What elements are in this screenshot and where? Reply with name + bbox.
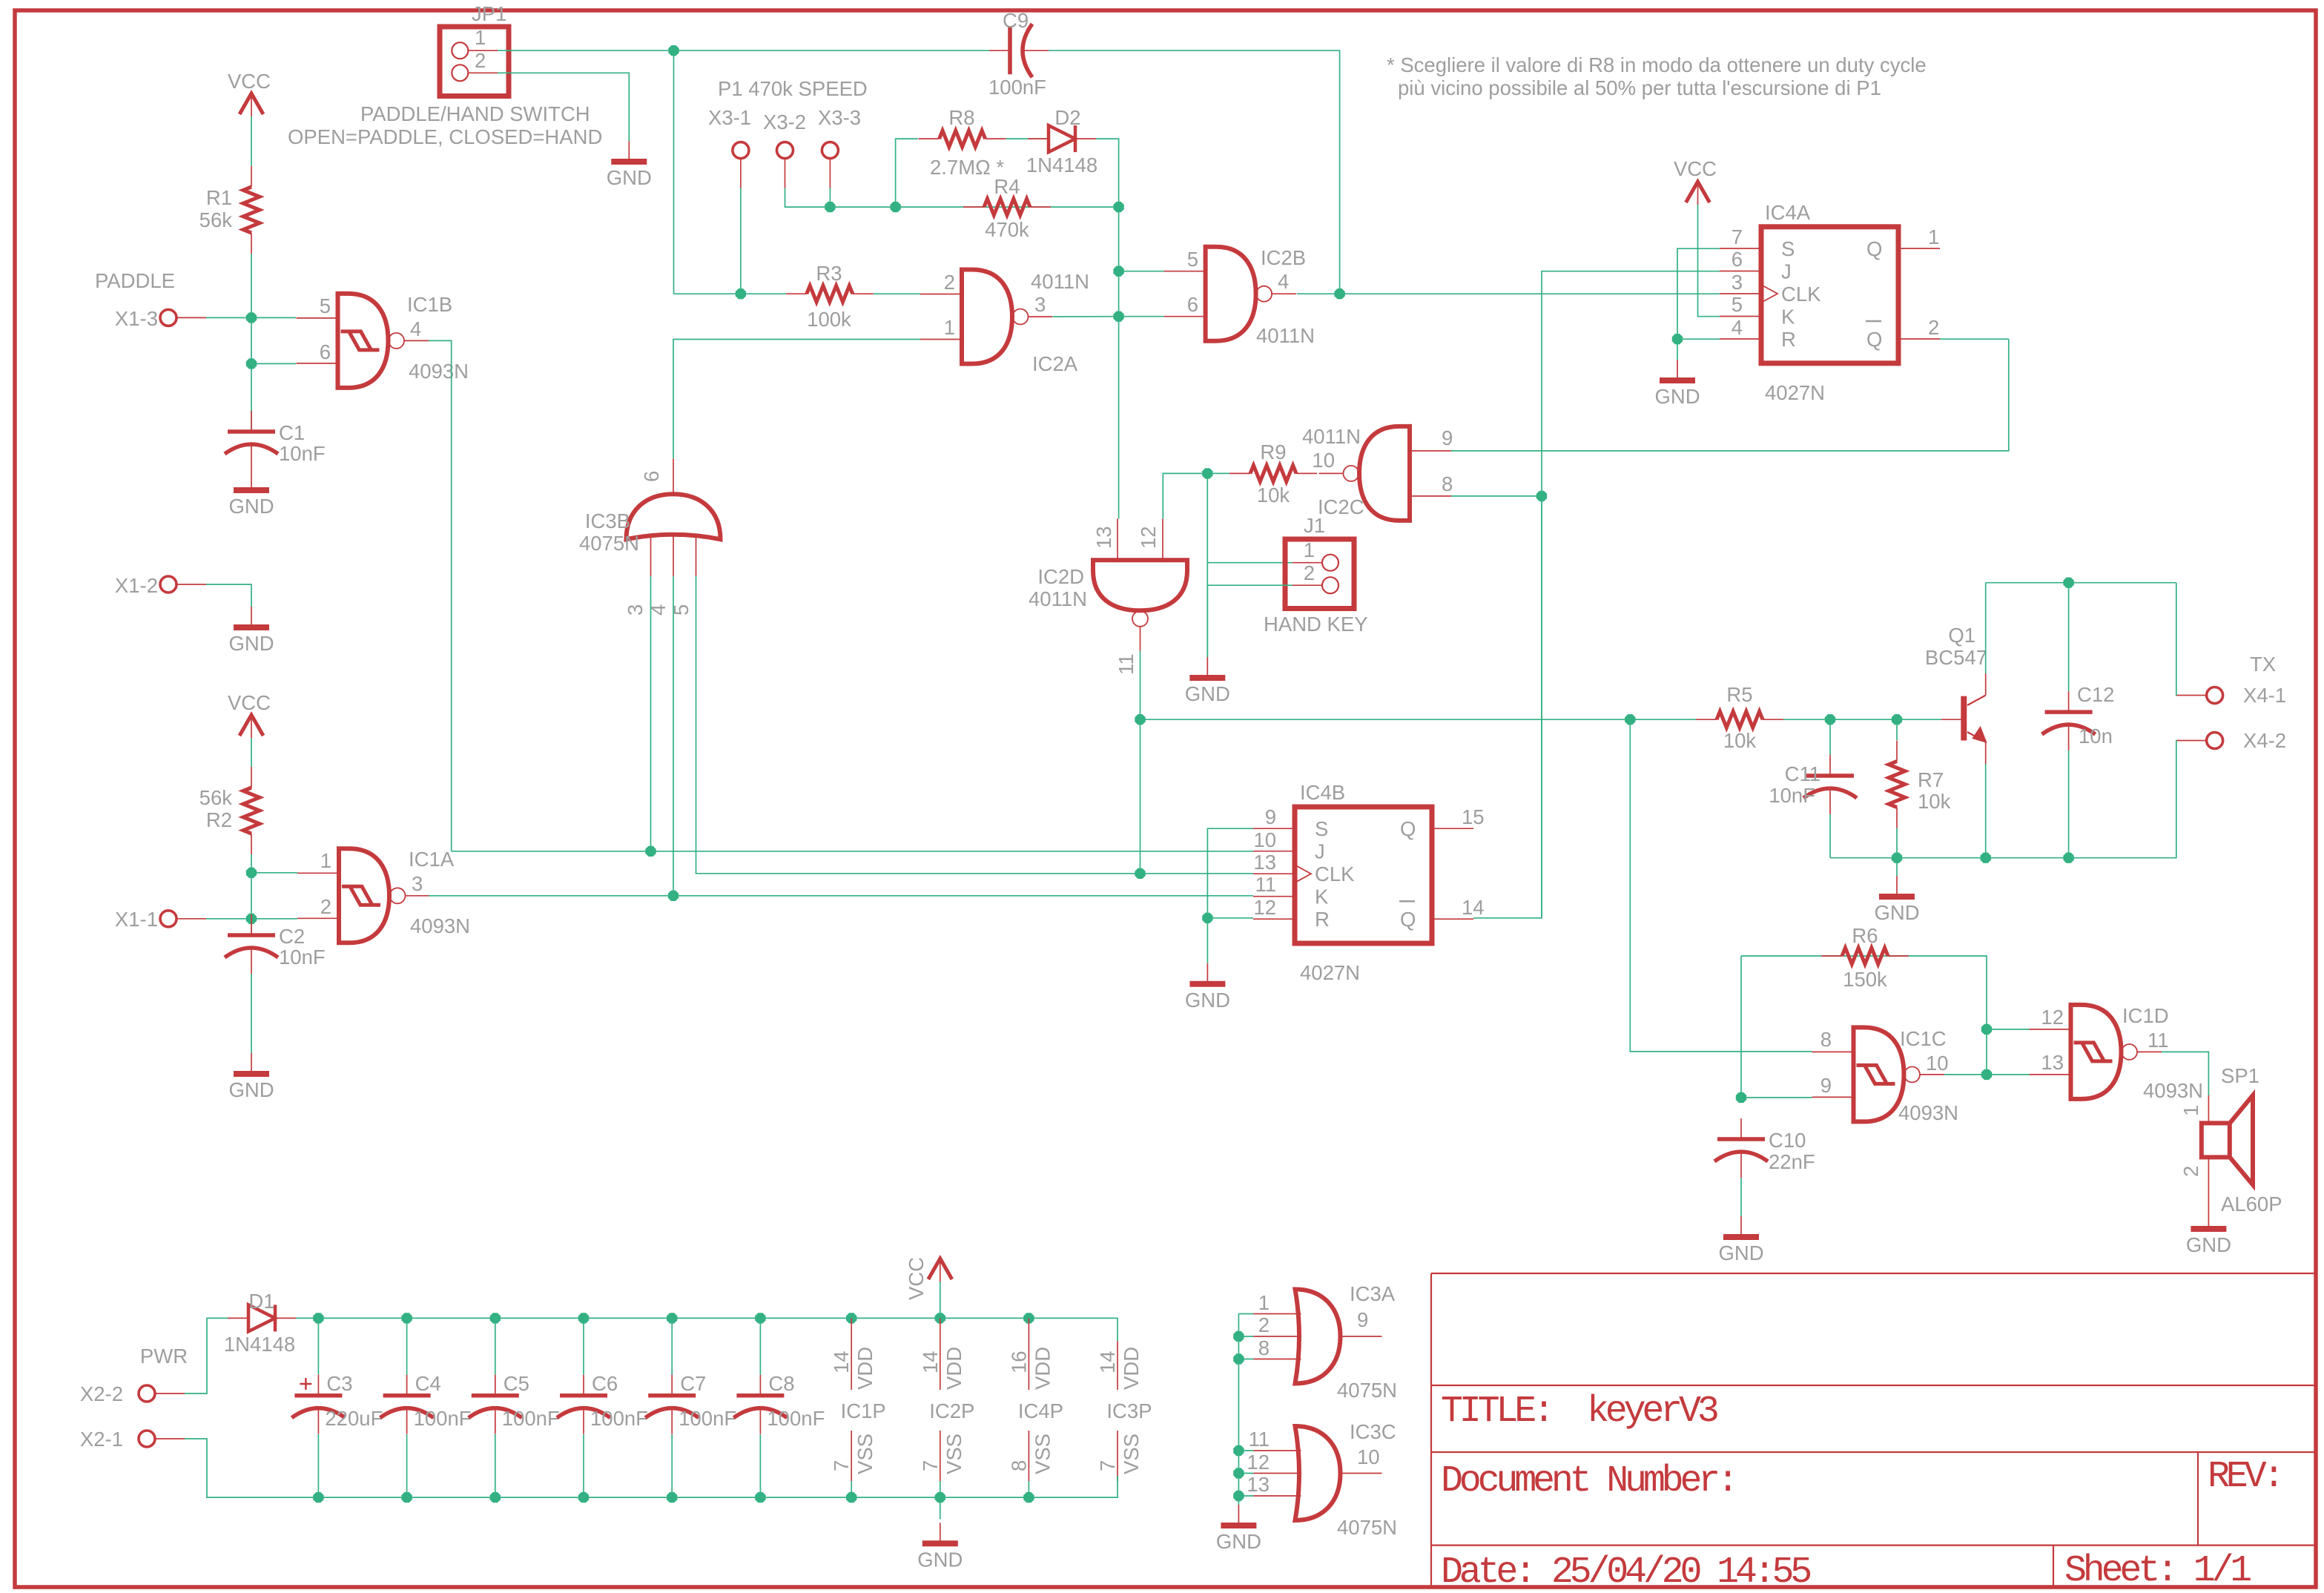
- wire C7 bottom: [671, 1434, 673, 1497]
- svg-text:4: 4: [1278, 270, 1289, 293]
- svg-text:5: 5: [320, 294, 331, 317]
- pin number 12 (IC3C): [1247, 1451, 1270, 1474]
- svg-text:6: 6: [1732, 248, 1743, 271]
- svg-text:4093N: 4093N: [1898, 1101, 1958, 1124]
- label Q1: [1948, 624, 1975, 647]
- ground below power rail: [917, 1523, 963, 1571]
- label 22nF (C10): [1769, 1150, 1815, 1173]
- gate IC1D 4093N: [2030, 1005, 2162, 1099]
- svg-text:VSS: VSS: [943, 1434, 965, 1474]
- label C9: [1003, 9, 1029, 32]
- svg-text:VSS: VSS: [854, 1434, 877, 1474]
- wire K row: [429, 895, 1253, 897]
- pin number 11 (IC3C): [1248, 1428, 1270, 1451]
- junction IC3 bus y1832: [1233, 1353, 1244, 1364]
- label 100nF (C8): [767, 1407, 825, 1430]
- svg-text:4011N: 4011N: [1256, 324, 1315, 347]
- svg-text:10: 10: [1312, 449, 1335, 472]
- label IC2A: [1032, 352, 1078, 375]
- label 100nF (C4): [414, 1407, 472, 1430]
- label 100nF (C5): [502, 1407, 560, 1430]
- label X2-2: [80, 1382, 123, 1405]
- svg-text:VSS: VSS: [1031, 1434, 1054, 1474]
- wire node to X1-1: [251, 873, 252, 919]
- svg-text:IC1B: IC1B: [407, 293, 452, 316]
- label 10nF (C2): [279, 946, 326, 969]
- label 10nF (C1): [279, 442, 326, 465]
- junction JP1 net: [668, 45, 679, 56]
- svg-text:4075N: 4075N: [1337, 1379, 1397, 1402]
- svg-text:R7: R7: [1918, 768, 1944, 791]
- svg-text:12: 12: [1137, 526, 1160, 549]
- svg-text:R: R: [1781, 328, 1796, 351]
- wire IC3 bus branch y1832: [1238, 1359, 1253, 1360]
- label OPEN=PADDLE CLOSED=HAND: [288, 125, 602, 148]
- junction X1-3 node: [246, 312, 257, 323]
- wire C6 top: [583, 1318, 584, 1374]
- svg-text:4075N: 4075N: [579, 532, 639, 555]
- pin number 13 (IC2D): [1092, 526, 1115, 549]
- ground below rail: [1874, 876, 1919, 924]
- label C12: [2077, 683, 2114, 706]
- capacitor C8: [733, 1375, 787, 1434]
- label 2.7MOhm (R8): [930, 156, 1004, 179]
- junction R5 row / IC1C-8 column: [1625, 714, 1635, 725]
- junction rail top C3: [313, 1313, 323, 1323]
- label R7: [1918, 768, 1944, 791]
- junction rail bottom C7: [667, 1492, 677, 1503]
- svg-text:GND: GND: [228, 495, 274, 518]
- ground below JP1: [607, 141, 652, 189]
- svg-text:PADDLE: PADDLE: [95, 269, 175, 292]
- svg-text:IC2B: IC2B: [1261, 246, 1306, 269]
- wire IC2C pin8 right: [1451, 495, 1542, 497]
- svg-text:4027N: 4027N: [1765, 381, 1825, 404]
- svg-text:4011N: 4011N: [1302, 425, 1361, 448]
- label X1-3: [115, 307, 158, 330]
- svg-text:100nF: 100nF: [590, 1407, 648, 1430]
- wire node to IC1B pin6: [251, 317, 296, 363]
- label HAND KEY: [1264, 613, 1368, 636]
- svg-text:10k: 10k: [1257, 484, 1290, 507]
- pin number 13 (IC3C): [1247, 1473, 1270, 1496]
- svg-text:C3: C3: [326, 1372, 352, 1395]
- label IC2B: [1261, 246, 1306, 269]
- svg-text:GND: GND: [1216, 1530, 1261, 1553]
- junction rail C12: [2063, 853, 2073, 863]
- wire C4 top: [406, 1318, 408, 1374]
- junction rail bottom C8: [755, 1492, 765, 1503]
- wire IC2C pin9 right: [1451, 339, 2009, 451]
- label IC1A: [409, 848, 455, 871]
- svg-text:VCC: VCC: [228, 691, 271, 714]
- capacitor C9: [989, 24, 1049, 77]
- pin number 11 (IC2D): [1115, 653, 1138, 675]
- svg-text:14: 14: [1096, 1350, 1119, 1373]
- svg-text:6: 6: [320, 340, 331, 363]
- svg-text:13: 13: [1092, 526, 1115, 549]
- svg-text:C8: C8: [768, 1372, 794, 1395]
- gate IC3B 4075N: [627, 458, 721, 576]
- svg-text:X1-1: X1-1: [115, 908, 158, 931]
- label X1-1: [115, 908, 158, 931]
- svg-text:16: 16: [1007, 1350, 1030, 1373]
- svg-text:più vicino possibile al 50% pe: più vicino possibile al 50% per tutta l'…: [1398, 76, 1881, 99]
- svg-text:P1 470k SPEED: P1 470k SPEED: [718, 77, 868, 100]
- power flag VCC (R1): [228, 70, 271, 116]
- svg-text:VCC: VCC: [228, 70, 271, 93]
- power pins IC3P: [1096, 1341, 1152, 1481]
- wire VCC to R1: [251, 116, 252, 166]
- svg-text:VDD: VDD: [943, 1347, 965, 1390]
- junction K row IC3B pin4: [668, 891, 679, 901]
- svg-text:10nF: 10nF: [1769, 784, 1815, 807]
- wire C1 top: [251, 363, 252, 432]
- pin number 2 (IC1A): [320, 895, 331, 918]
- junction IC4B R node: [1202, 913, 1212, 923]
- svg-text:10: 10: [1253, 828, 1276, 851]
- junction rail emitter: [1981, 853, 1991, 863]
- svg-text:7: 7: [1096, 1460, 1119, 1471]
- svg-text:2: 2: [944, 271, 955, 294]
- junction VSS rail IC4P: [1023, 1492, 1034, 1503]
- junction IC2D out to R5 row: [1135, 714, 1145, 725]
- junction VDD rail IC1P: [846, 1313, 856, 1323]
- wire bottom power rail: [293, 1476, 1118, 1497]
- junction VSS rail IC1P: [846, 1492, 856, 1503]
- label 4011N (IC2C): [1302, 425, 1361, 448]
- wire X2-1 to bottom rail: [185, 1439, 293, 1497]
- junction CLK row: [1135, 868, 1145, 879]
- svg-text:GND: GND: [1654, 385, 1700, 408]
- wire R7 to rail: [1896, 828, 1898, 858]
- resistor R9: [1229, 465, 1317, 481]
- svg-text:8: 8: [1258, 1336, 1270, 1359]
- svg-text:C5: C5: [504, 1372, 529, 1395]
- label 100nF (C7): [679, 1407, 736, 1430]
- svg-text:R9: R9: [1260, 441, 1286, 464]
- pin X1-2: [160, 576, 206, 593]
- svg-text:X3-1: X3-1: [708, 106, 751, 129]
- label X4-2: [2243, 729, 2286, 752]
- label C10: [1769, 1129, 1806, 1152]
- label SP1: [2221, 1064, 2259, 1087]
- wire X1-3 to junction: [206, 317, 296, 318]
- power flag VCC (rails): [905, 1257, 952, 1300]
- wire C7 top: [671, 1318, 673, 1374]
- label IC2C: [1318, 495, 1364, 518]
- pin number 5 (IC4A): [1732, 293, 1743, 316]
- pin number 8 (IC1C): [1820, 1028, 1832, 1051]
- pin X3-1: [733, 142, 749, 188]
- wire collector rail: [1986, 582, 2176, 584]
- label 4093N (IC1B): [409, 360, 469, 383]
- svg-text:X1-2: X1-2: [115, 574, 158, 597]
- svg-text:S: S: [1315, 817, 1328, 840]
- label IC4B: [1300, 781, 1345, 804]
- wire IC4B R stub: [1207, 917, 1253, 919]
- svg-text:GND: GND: [228, 632, 274, 655]
- wire IC3 bus branch y1986: [1238, 1473, 1253, 1474]
- pin number 9 (IC1C): [1820, 1074, 1832, 1097]
- pin number 12 (IC4B): [1253, 896, 1276, 919]
- label 4075N (IC3C): [1337, 1516, 1397, 1539]
- pin number 2 (IC3A): [1258, 1313, 1270, 1336]
- svg-text:GND: GND: [1718, 1241, 1763, 1264]
- label 10k (R7): [1918, 790, 1951, 813]
- svg-text:IC1C: IC1C: [1900, 1027, 1947, 1050]
- label PWR: [140, 1345, 188, 1368]
- svg-text:R: R: [1315, 908, 1330, 931]
- pin number 10 (IC1C): [1926, 1052, 1949, 1075]
- capacitor C6: [557, 1375, 610, 1434]
- svg-text:VDD: VDD: [1031, 1347, 1054, 1390]
- wire R4row left to R8 branch: [896, 139, 918, 207]
- svg-text:IC3A: IC3A: [1350, 1282, 1396, 1305]
- svg-text:12: 12: [1253, 896, 1276, 919]
- power flag VCC (R2): [228, 691, 271, 738]
- svg-text:2: 2: [1928, 316, 1939, 339]
- svg-text:Q1: Q1: [1948, 624, 1975, 647]
- label IC1B: [407, 293, 452, 316]
- wire rail to GND (power): [940, 1497, 941, 1519]
- label 4011N (IC2B): [1256, 324, 1315, 347]
- junction rail top C8: [755, 1313, 765, 1323]
- pin X3-3: [822, 142, 838, 188]
- svg-text:11: 11: [2148, 1029, 2169, 1052]
- svg-text:IC4P: IC4P: [1018, 1399, 1063, 1422]
- resistor R8: [919, 131, 1006, 147]
- svg-text:R2: R2: [206, 808, 232, 831]
- wire IC4B Qbar right-up: [1473, 496, 1542, 918]
- capacitor C11: [1803, 755, 1857, 814]
- junction VDD rail IC2P: [935, 1313, 945, 1323]
- gate IC1B 4093N: [297, 294, 429, 388]
- pin number 6 (IC3B): [640, 471, 663, 482]
- label IC3A: [1350, 1282, 1396, 1305]
- ground below IC4B: [1185, 963, 1230, 1012]
- resistor R2: [243, 767, 260, 854]
- label AL60P: [2221, 1193, 2282, 1216]
- pin number 10 (IC2C): [1312, 449, 1335, 472]
- label 100nF (C9): [988, 76, 1046, 99]
- label 4093N (IC1C): [1898, 1101, 1958, 1124]
- pin number 4 (IC4A): [1732, 316, 1743, 339]
- wire C11 top lead: [1829, 719, 1831, 755]
- wire IC2A out to pin6 node: [1053, 316, 1119, 317]
- pin number 2 (IC4A): [1928, 316, 1939, 339]
- pin X2-2: [139, 1385, 185, 1402]
- wire VCC to IC4A K: [1698, 205, 1720, 317]
- svg-text:4093N: 4093N: [2143, 1079, 2203, 1102]
- wire C6 bottom: [583, 1434, 584, 1497]
- gate IC3A 4075N: [1254, 1290, 1382, 1384]
- wire down to IC1C pin8: [1630, 719, 1812, 1052]
- wire X3-1 green part: [740, 188, 742, 294]
- pin number 11 (IC4B): [1255, 873, 1276, 896]
- label 56k (R2): [199, 786, 233, 809]
- junction IC2C pin8 node: [1536, 491, 1547, 501]
- svg-text:BC547: BC547: [1925, 646, 1987, 669]
- svg-text:GND: GND: [1185, 682, 1230, 705]
- svg-text:X1-3: X1-3: [115, 307, 158, 330]
- capacitor C5: [469, 1375, 522, 1434]
- svg-text:VDD: VDD: [854, 1347, 877, 1390]
- svg-text:OPEN=PADDLE, CLOSED=HAND: OPEN=PADDLE, CLOSED=HAND: [288, 125, 602, 148]
- svg-text:1: 1: [944, 316, 955, 339]
- label IC2D: [1037, 565, 1084, 588]
- svg-text:C4: C4: [415, 1372, 441, 1395]
- label 150k (R6): [1843, 968, 1887, 991]
- svg-text:22nF: 22nF: [1769, 1150, 1815, 1173]
- junction X1-1 node: [246, 914, 257, 924]
- junction R9 node: [1202, 468, 1212, 478]
- svg-text:10k: 10k: [1723, 729, 1757, 752]
- pin number 6 (IC4A): [1732, 248, 1743, 271]
- label 10k (R9): [1257, 484, 1290, 507]
- pin number 1 (J1): [1304, 538, 1315, 561]
- wire IC3 gnd bus: [1238, 1313, 1253, 1315]
- svg-text:K: K: [1781, 306, 1795, 329]
- svg-text:IC4A: IC4A: [1765, 201, 1811, 224]
- svg-text:10nF: 10nF: [279, 442, 326, 465]
- svg-text:2: 2: [2179, 1166, 2202, 1177]
- label C1: [279, 421, 305, 444]
- svg-text:2: 2: [1304, 561, 1315, 584]
- junction rail R7: [1892, 853, 1902, 863]
- wire VCC to R2: [251, 738, 252, 767]
- junction J row IC3B pin3: [645, 846, 656, 857]
- pin X1-1: [160, 911, 206, 927]
- svg-text:1: 1: [1304, 538, 1315, 561]
- svg-text:JP1: JP1: [472, 2, 506, 25]
- wire IC4B S left-up: [1207, 828, 1253, 963]
- svg-text:VDD: VDD: [1120, 1347, 1143, 1390]
- svg-text:6: 6: [640, 471, 663, 482]
- wire IC3 bus branch y1802: [1238, 1336, 1253, 1337]
- svg-text:1: 1: [1928, 225, 1939, 248]
- label IC3C: [1350, 1420, 1396, 1443]
- svg-text:10: 10: [1926, 1052, 1949, 1075]
- wire IC4A R left: [1677, 338, 1720, 340]
- connector J1 box: [1285, 539, 1354, 609]
- svg-text:PADDLE/HAND SWITCH: PADDLE/HAND SWITCH: [360, 102, 590, 125]
- wire IC3B pin5 down: [696, 576, 1254, 874]
- junction rail top C6: [578, 1313, 589, 1323]
- svg-text:C12: C12: [2077, 683, 2114, 706]
- label 10k (R5): [1723, 729, 1757, 752]
- svg-text:SP1: SP1: [2221, 1064, 2259, 1087]
- svg-text:5: 5: [1187, 248, 1198, 271]
- svg-text:IC4B: IC4B: [1300, 781, 1345, 804]
- svg-text:C6: C6: [592, 1372, 618, 1395]
- pin X4-2: [2177, 733, 2223, 749]
- wire C5 bottom: [495, 1434, 496, 1497]
- junction VSS rail IC2P: [935, 1492, 945, 1503]
- pin number 4 (IC3B): [647, 604, 670, 616]
- svg-text:13: 13: [2041, 1051, 2064, 1074]
- power pins IC4P: [1007, 1318, 1063, 1497]
- svg-text:IC2A: IC2A: [1032, 352, 1078, 375]
- svg-text:10nF: 10nF: [279, 946, 326, 969]
- label 4011N (IC2A): [1031, 270, 1089, 293]
- wire IC1C out: [1944, 1074, 2030, 1075]
- label C8: [768, 1372, 794, 1395]
- pin number 3 (IC1A): [412, 872, 423, 895]
- svg-text:R4: R4: [994, 175, 1020, 198]
- svg-text:100k: 100k: [807, 308, 851, 331]
- svg-text:11: 11: [1255, 873, 1276, 896]
- svg-text:K: K: [1315, 885, 1329, 908]
- label 4093N (IC1D): [2143, 1079, 2203, 1102]
- svg-text:TX: TX: [2250, 653, 2276, 676]
- svg-text:Sheet: 1/1: Sheet: 1/1: [2064, 1550, 2251, 1592]
- wire C12 top lead: [2068, 583, 2070, 691]
- svg-text:4011N: 4011N: [1031, 270, 1089, 293]
- svg-text:Q: Q: [1400, 817, 1416, 840]
- ground below IC3 bus: [1216, 1505, 1261, 1553]
- label 100k (R3): [807, 308, 851, 331]
- junction X3-3 node: [825, 202, 835, 212]
- capacitor C10: [1714, 1118, 1768, 1178]
- svg-text:11: 11: [1115, 653, 1138, 675]
- pin number 1 (IC1A): [320, 849, 331, 872]
- svg-text:VSS: VSS: [1120, 1434, 1143, 1474]
- wire to IC2B pin6: [1119, 316, 1164, 317]
- resistor R1: [243, 166, 260, 254]
- svg-text:S: S: [1781, 237, 1795, 260]
- svg-text:VCC: VCC: [1674, 157, 1717, 180]
- svg-text:150k: 150k: [1843, 968, 1887, 991]
- wire C11 to rail: [1829, 814, 1831, 858]
- wire IC4A S left: [1677, 248, 1720, 339]
- wire C2 top: [251, 919, 252, 935]
- svg-text:X2-2: X2-2: [80, 1382, 123, 1405]
- svg-text:Date: 25/04/20 14:55: Date: 25/04/20 14:55: [1441, 1551, 1810, 1593]
- label C4: [415, 1372, 441, 1395]
- wire R6 row: [1741, 956, 1987, 1075]
- wire IC4A node to GND: [1677, 339, 1678, 360]
- svg-text:3: 3: [1732, 271, 1743, 294]
- wire C10 down: [1740, 1178, 1742, 1216]
- junction IC1D pin12 node: [1981, 1024, 1992, 1035]
- junction C12 top: [2063, 578, 2073, 588]
- wire R3 to IC2A pin2: [874, 293, 920, 294]
- ground below SP1: [2186, 1208, 2231, 1256]
- svg-text:100nF: 100nF: [414, 1407, 472, 1430]
- svg-text:2.7MΩ *: 2.7MΩ *: [930, 156, 1004, 179]
- svg-text:13: 13: [1247, 1473, 1270, 1496]
- pin number 11 (IC1D): [2148, 1029, 2169, 1052]
- svg-text:X3-3: X3-3: [818, 106, 861, 129]
- pin number 14 (IC4B): [1462, 896, 1485, 919]
- wire to IC2B pin5: [1119, 271, 1164, 272]
- svg-text:VCC: VCC: [905, 1257, 928, 1300]
- pin number 9 (IC2C): [1442, 426, 1453, 449]
- junction IC3 bus y1986: [1233, 1468, 1244, 1478]
- svg-text:D1: D1: [248, 1290, 274, 1313]
- svg-text:C11: C11: [1785, 762, 1820, 785]
- svg-text:10: 10: [1357, 1445, 1380, 1468]
- pin X2-1: [139, 1431, 185, 1447]
- wire top power rail: [296, 1318, 1118, 1341]
- svg-text:100nF: 100nF: [679, 1407, 736, 1430]
- pin number 4 (IC2B): [1278, 270, 1289, 293]
- label 100nF (C6): [590, 1407, 648, 1430]
- svg-text:R6: R6: [1852, 924, 1878, 947]
- pin number 2 (IC2A): [944, 271, 955, 294]
- wire Q1 collector up: [1985, 583, 1987, 673]
